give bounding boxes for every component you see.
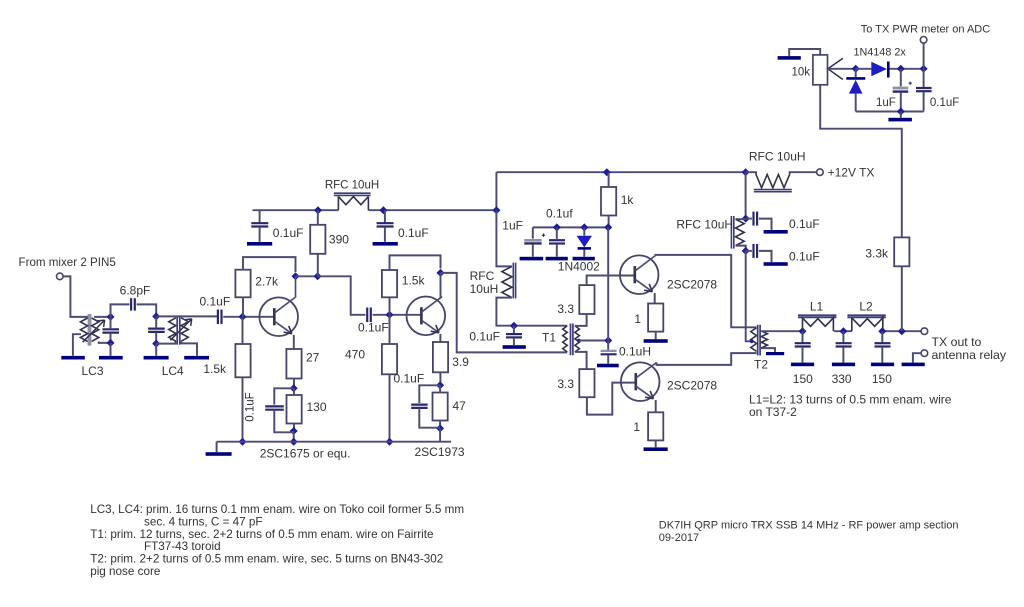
label L1=L2 note line1 (749, 393, 952, 407)
node LPF 3 (878, 327, 886, 335)
wire 1 Q4 to ground (655, 440, 657, 447)
capacitor 150 output (872, 331, 892, 386)
svg-text:0.1uF: 0.1uF (789, 249, 820, 263)
capacitor 6.8pF (120, 284, 151, 311)
label 0.1uF Q2 bypass (394, 372, 425, 386)
wire 1.5k to rail (242, 377, 244, 441)
wire L2 to TX out (883, 330, 921, 332)
inductor RFC 10uH driver (325, 180, 379, 211)
wire 1.5k Q2 bottom (389, 297, 391, 315)
wire coupling cap to Q1 base (223, 316, 274, 318)
svg-text:0.1uF: 0.1uF (245, 392, 257, 421)
node RFC T2 top (742, 215, 750, 223)
node Q1 base (239, 313, 247, 321)
node LC4 bottom (152, 340, 160, 348)
capacitor 1uF bias (502, 219, 545, 257)
wire Q2 base to 470 (389, 315, 391, 344)
node Q2 collector (437, 269, 445, 277)
wire 1k top (608, 172, 610, 187)
terminal input from mixer (57, 273, 64, 280)
wire Q2 collector to T1 (441, 273, 568, 353)
node detector ground (897, 108, 905, 116)
node Q2 base (386, 311, 394, 319)
capacitor 0.1uF T2 lower (746, 244, 820, 263)
label To TX PWR meter on ADC (861, 24, 990, 36)
label TX out to (932, 335, 982, 349)
svg-text:0.1uF: 0.1uF (789, 217, 820, 231)
wire 390 to collector node (317, 254, 319, 276)
svg-text:0.1uH: 0.1uH (619, 345, 651, 359)
resistor 1 Q4 (633, 412, 663, 440)
capacitor 330 (832, 331, 852, 386)
ground LPF cap 3 (871, 363, 894, 367)
ground LC3 primary (61, 356, 85, 360)
svg-text:150: 150 (872, 372, 892, 386)
svg-text:150: 150 (793, 372, 813, 386)
note T2 line2 (90, 565, 160, 578)
wire LC3 to 6.8pF (111, 304, 130, 317)
ground main rail (206, 452, 232, 456)
svg-text:1k: 1k (621, 193, 635, 207)
wire RFC T2 to center tap (746, 251, 751, 341)
transistor Q1 2SC1675 (259, 297, 298, 336)
svg-text:T2: prim. 2+2 turns of 0.5 mm: T2: prim. 2+2 turns of 0.5 mm enam. wire… (90, 553, 443, 566)
diode 1N4002 (558, 227, 600, 273)
capacitor 0.1uF rail right (377, 210, 429, 242)
node rail 1.5k (239, 438, 247, 446)
svg-text:10uH: 10uH (470, 282, 499, 296)
wire junction to 130 (293, 388, 295, 395)
wire LC4 secondary top (156, 315, 217, 317)
ground detector (888, 118, 912, 122)
wire interstage to Q2 base (373, 314, 422, 316)
transformer LC4 (169, 316, 192, 345)
wire LC3 primary to ground (73, 334, 81, 356)
ground T1 top cap (503, 345, 526, 349)
capacitor 0.1uF T2 upper (746, 212, 820, 231)
wire +12V down to driver rail (495, 172, 497, 210)
resistor 390 (310, 225, 349, 254)
node rail 470 (386, 438, 394, 446)
wire base to 1.5k (242, 317, 244, 344)
svg-text:1.5k: 1.5k (402, 274, 426, 288)
wire 3.3 upper to Q3 base (587, 276, 634, 286)
svg-text:3.3: 3.3 (557, 302, 574, 316)
svg-text:RFC 10uH: RFC 10uH (676, 218, 733, 232)
label 2SC2078 lower (667, 379, 717, 393)
label L1=L2 note line2 (749, 405, 797, 419)
label LC4 (162, 364, 184, 378)
wire Q4 collector to T2 (657, 353, 757, 365)
svg-text:0.1uF: 0.1uF (273, 226, 304, 240)
capacitor 0.1uF detector (916, 69, 959, 112)
svg-text:1: 1 (633, 420, 640, 434)
wire 1 Q3 to ground (655, 332, 657, 340)
note LC3 LC4 line2 (144, 515, 263, 528)
svg-text:0.1uF: 0.1uF (469, 330, 500, 344)
inductor RFC 10uH +12V TX (746, 149, 817, 191)
wire input to LC3 (63, 276, 88, 317)
label 2SC1973 (415, 445, 465, 459)
ground rail left cap (247, 242, 272, 246)
capacitor 0.1uF input coupling (218, 310, 222, 325)
wire 47 junction to rail (439, 428, 441, 441)
capacitor 0.1uF Q1 bypass (265, 388, 294, 432)
ground LPF cap 2 (832, 363, 855, 367)
label LC3 (81, 364, 103, 378)
wire interstage (318, 276, 366, 315)
svg-text:470: 470 (345, 348, 365, 362)
wire Q1 emitter to 27 (293, 335, 295, 349)
wire driver rail (253, 209, 339, 211)
note T1 line2 (144, 540, 221, 553)
capacitor 0.1uF interstage (358, 308, 389, 335)
svg-text:pig nose core: pig nose core (90, 565, 160, 578)
label From mixer 2 PIN5 (19, 256, 116, 269)
svg-text:1uF: 1uF (876, 97, 896, 109)
svg-text:1uF: 1uF (502, 219, 523, 233)
capacitor 0.1uF T1 top (469, 326, 522, 345)
terminal +12V TX (817, 169, 824, 176)
node 390 bottom (314, 272, 322, 280)
wire LC3 secondary top (95, 316, 111, 319)
ground T2 secondary (766, 352, 784, 355)
inductor L1 (798, 300, 836, 332)
transistor Q4 2SC2078 lower (621, 362, 660, 401)
note T2 line1 (90, 553, 443, 566)
wire Q2 emitter to 3.9 (439, 334, 441, 342)
node 47 bottom (436, 424, 444, 432)
svg-text:3.3: 3.3 (557, 377, 574, 391)
node bias diode (580, 223, 588, 231)
svg-text:0.1uF: 0.1uF (398, 226, 429, 240)
ground LC4 secondary (184, 356, 209, 360)
svg-text:sec. 4 turns, C = 47 pF: sec. 4 turns, C = 47 pF (144, 515, 263, 528)
inductor RFC 10uH T2 feed (676, 216, 745, 251)
wire LC4 bottom link (156, 341, 175, 343)
svg-text:0.1uF: 0.1uF (200, 295, 231, 309)
svg-text:0.1uF: 0.1uF (930, 97, 959, 109)
wire 6.8pF to LC4 (137, 304, 157, 316)
wire 3.3k to pot (820, 85, 902, 238)
resistor 2.7k (235, 270, 279, 298)
wire to meter terminal (923, 43, 925, 69)
wire LC3 secondary bottom (99, 341, 111, 343)
diode 1N4148 shunt (846, 69, 865, 112)
svg-text:2SC2078: 2SC2078 (667, 379, 717, 393)
ground potentiometer top (778, 56, 801, 60)
node Q1 emitter junction (290, 384, 298, 392)
resistor 3.9 (433, 342, 469, 372)
terminal antenna relay (921, 350, 928, 357)
label antenna relay (932, 348, 1007, 362)
svg-text:0.1uF: 0.1uF (358, 321, 389, 335)
wire RFC to T1 top (496, 298, 567, 326)
resistor 3.3k (865, 237, 909, 266)
svg-text:3.3k: 3.3k (865, 247, 889, 261)
title line2 (659, 532, 699, 544)
wire 3.3 lower to Q4 base (587, 383, 635, 415)
resistor 470 (345, 344, 397, 374)
transistor Q3 2SC2078 upper (620, 255, 659, 294)
node bias at T1 tap (604, 337, 612, 345)
wire rail to ground (216, 442, 218, 453)
inductor 0.1uH (601, 341, 651, 364)
svg-text:09-2017: 09-2017 (659, 532, 699, 544)
node detector 1uF (897, 65, 905, 73)
svg-text:L2: L2 (859, 300, 873, 314)
node LC4 top (152, 312, 160, 320)
node T1 top tap (510, 322, 518, 330)
wire to detector ground (900, 112, 902, 118)
label 2SC2078 upper (667, 278, 717, 292)
wire pot wiper (828, 68, 856, 70)
wire T1 sec top to 3.3 (575, 314, 587, 326)
wire 130 junction to rail (293, 431, 295, 442)
svg-text:FT37-43 toroid: FT37-43 toroid (144, 540, 221, 553)
wire 47 to junction2 (439, 421, 441, 429)
wire Q3 collector to T2 (656, 255, 757, 327)
terminal TX out (921, 328, 928, 335)
node T2 center tap (750, 339, 754, 343)
node LC3 top (107, 313, 115, 321)
node LC3 bottom (107, 339, 115, 347)
node 1k top (603, 168, 611, 176)
ground 1N4002 (573, 257, 595, 261)
wire rail to 390 (317, 210, 319, 225)
svg-text:T2: T2 (754, 358, 768, 372)
svg-text:To TX PWR meter on ADC: To TX PWR meter on ADC (861, 24, 990, 36)
svg-text:47: 47 (453, 399, 467, 413)
wire bias rail (533, 226, 609, 228)
wire bias vertical (607, 227, 609, 340)
svg-text:6.8pF: 6.8pF (120, 284, 151, 298)
node RFC T2 bottom (742, 247, 750, 255)
svg-text:0.1uf: 0.1uf (546, 207, 573, 221)
wire T2 to L1 (761, 330, 802, 332)
wire pot top to ground (789, 49, 820, 56)
ground 0.1uF T2 lower (764, 262, 788, 266)
capacitor LC4 tank (148, 316, 165, 343)
wire 27 to junction (293, 379, 295, 389)
label +12V TX (828, 166, 875, 180)
wire 1k bottom to bias rail (608, 216, 610, 228)
wire driver rail right (368, 209, 496, 211)
resistor 3.3 lower (557, 369, 594, 397)
note T1 line1 (90, 528, 433, 541)
svg-text:27: 27 (306, 351, 320, 365)
wire +12V down to RFC T2 (745, 172, 747, 218)
wire TX out to 3.3k (901, 266, 903, 331)
node +12V T2 branch (742, 168, 750, 176)
node Q1 collector (292, 272, 300, 280)
wire 3.9 to junction (439, 372, 441, 385)
wire T2 secondary bottom to ground (761, 348, 775, 352)
node rail 390 (314, 206, 322, 214)
title line1 (659, 520, 959, 532)
wire Q3 emitter to 1 (654, 293, 656, 304)
capacitor 0.1uF Q2 bypass (411, 385, 440, 427)
wire 1.5k Q2 top to collector (390, 255, 441, 270)
svg-text:1.5k: 1.5k (203, 362, 227, 376)
label 1N4148 2x (854, 47, 907, 59)
capacitor 0.1uF rail left (251, 210, 303, 242)
ground 0.1uH (597, 364, 619, 368)
transformer T2 (751, 325, 769, 372)
capacitor 1uF detector (876, 69, 912, 112)
node Q2 emitter junction (436, 381, 444, 389)
capacitor 0.1uf bias (546, 207, 573, 257)
svg-text:10k: 10k (791, 66, 810, 78)
label 2SC1675 or equ. (260, 447, 351, 461)
resistor 1.5k Q1 (203, 344, 250, 377)
wire +12V down to RFC (496, 210, 512, 266)
ground rail right cap (373, 242, 398, 246)
wire collector node to 390 (296, 275, 318, 277)
note LC3 LC4 line1 (90, 503, 464, 516)
resistor 1 Q3 (634, 304, 663, 332)
svg-text:130: 130 (307, 400, 327, 414)
svg-text:LC3, LC4: prim. 16 turns 0.1 m: LC3, LC4: prim. 16 turns 0.1 mm enam. wi… (90, 503, 464, 516)
wire detector ground rail (856, 111, 924, 113)
wire 2.7k top to collector node (243, 257, 296, 272)
inductor RFC 10uH PA driver feed (470, 263, 516, 299)
resistor 3.3 upper (557, 285, 594, 316)
wire L1 to L2 (834, 330, 852, 332)
node driver rail feed (492, 206, 500, 214)
resistor 27 (286, 349, 319, 379)
node detector out (920, 65, 928, 73)
transformer T1 (542, 324, 579, 356)
svg-text:330: 330 (832, 372, 852, 386)
inductor L2 (847, 300, 885, 332)
wire +12V rail (496, 171, 745, 173)
wire junction to 47 (439, 385, 441, 392)
node TX out (898, 327, 906, 335)
ground 1uF bias (520, 257, 544, 261)
svg-text:RFC: RFC (470, 269, 495, 283)
diode 1N4148 series (856, 62, 921, 78)
resistor 1k (601, 187, 634, 216)
wire T1 sec bottom to 3.3 (575, 352, 587, 369)
ground relay (902, 363, 925, 367)
svg-text:1: 1 (634, 312, 641, 326)
wire 470 to rail (389, 374, 391, 441)
wire emitter ground rail (217, 441, 451, 443)
node T1 center tap (577, 339, 581, 343)
node LPF 2 (839, 327, 847, 335)
svg-text:+12V TX: +12V TX (828, 166, 875, 180)
ground Q4 emitter (644, 447, 668, 451)
node 130 bottom (290, 427, 298, 435)
node rail 130 (290, 438, 298, 446)
wire 130 to junction2 (293, 424, 295, 432)
svg-text:T1: T1 (542, 331, 556, 345)
ground 0.1uF T2 upper (764, 230, 788, 234)
svg-text:0.1uF: 0.1uF (394, 372, 425, 386)
svg-text:LC4: LC4 (162, 364, 184, 378)
capacitor LC3 tank (102, 317, 119, 343)
svg-text:1N4148 2x: 1N4148 2x (854, 47, 907, 59)
node LPF 1 (799, 327, 807, 335)
wire 2.7k bottom to base (242, 297, 244, 317)
svg-text:2SC1973: 2SC1973 (415, 445, 465, 459)
svg-text:2SC1675 or equ.: 2SC1675 or equ. (260, 447, 351, 461)
ground 0.1uf bias (546, 257, 568, 261)
wire LC4 bottom to ground (155, 344, 157, 356)
svg-text:3.9: 3.9 (452, 355, 469, 369)
capacitor 150 input (793, 331, 813, 386)
node rail right cap (379, 206, 387, 214)
svg-text:antenna relay: antenna relay (932, 348, 1007, 362)
svg-text:L1: L1 (810, 300, 824, 314)
transistor Q2 2SC1973 (407, 297, 446, 336)
ground Q3 emitter (644, 339, 668, 343)
wire LC3 bottom to ground (110, 343, 112, 356)
transformer LC3 (80, 314, 104, 346)
wire Q2 collector stub (440, 273, 442, 298)
wire LC4 secondary bottom to ground (181, 341, 197, 356)
svg-text:RFC 10uH: RFC 10uH (749, 149, 806, 163)
label 0.1uF input coupling (200, 295, 231, 309)
svg-text:390: 390 (329, 233, 349, 247)
resistor 1.5k Q2 (382, 270, 426, 297)
terminal TX PWR meter (920, 37, 927, 44)
resistor 47 (433, 393, 467, 421)
label 0.1uF Q1 bypass (245, 392, 257, 421)
svg-text:on T37-2: on T37-2 (749, 405, 797, 419)
svg-text:TX out to: TX out to (932, 335, 982, 349)
svg-text:From mixer 2 PIN5: From mixer 2 PIN5 (19, 256, 116, 269)
ground LC4 tank (144, 356, 169, 360)
wire T1 tap to bias (579, 340, 608, 342)
svg-text:RFC 10uH: RFC 10uH (325, 180, 379, 192)
ground LC3 secondary (99, 356, 123, 360)
svg-text:2SC2078: 2SC2078 (667, 278, 717, 292)
svg-text:1N4002: 1N4002 (558, 259, 600, 273)
resistor 130 (287, 395, 327, 424)
node bias 1k (604, 223, 612, 231)
wire Q4 emitter to 1 (655, 400, 657, 412)
node wiper (852, 65, 860, 73)
ground LPF cap 1 (791, 363, 814, 367)
svg-text:T1: prim. 12 turns, sec. 2+2 t: T1: prim. 12 turns, sec. 2+2 turns of 0.… (90, 528, 433, 541)
wire relay to ground (913, 353, 921, 362)
svg-text:2.7k: 2.7k (255, 275, 279, 289)
svg-text:DK7IH QRP micro TRX SSB 14 MHz: DK7IH QRP micro TRX SSB 14 MHz - RF powe… (659, 520, 959, 532)
wire Q1 collector (295, 276, 297, 298)
svg-text:LC3: LC3 (81, 364, 103, 378)
node bias 0.1uf (553, 223, 561, 231)
potentiometer 10k (791, 55, 842, 85)
